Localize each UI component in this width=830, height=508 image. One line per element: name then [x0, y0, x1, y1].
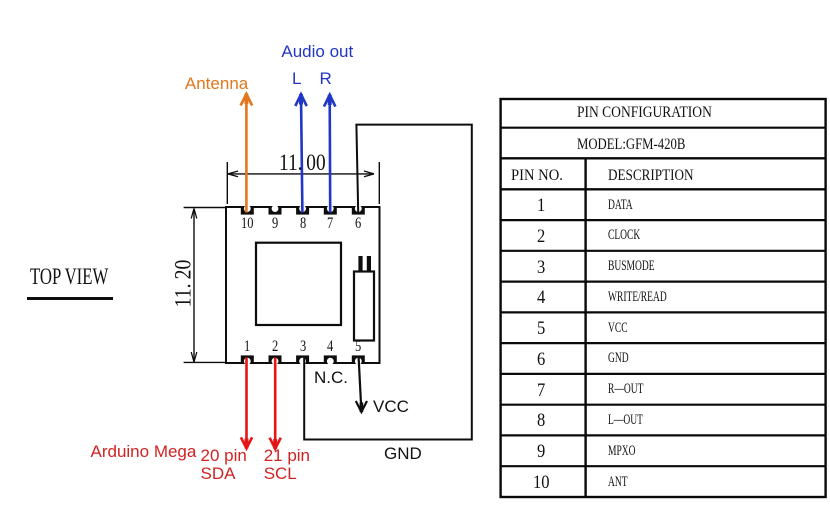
crystal lead 1 — [358, 256, 362, 272]
pin 3 pad — [296, 355, 309, 364]
dim text 11.20 — [171, 258, 194, 310]
row 3 description BUSMODE — [608, 259, 655, 274]
row 10 description ANT — [608, 475, 628, 490]
table header DESCRIPTION — [608, 168, 694, 184]
pin number 2 — [272, 339, 278, 355]
audio L arrow (blue, pin 8 up) — [295, 94, 306, 212]
GND wire (pin 3 to pin 6 loop) — [304, 125, 472, 440]
row 1 description DATA — [608, 198, 633, 213]
pin 5 pad — [352, 355, 365, 364]
label 20 pin SDA — [201, 447, 247, 483]
pin 4 pad — [324, 355, 337, 364]
table title PIN CONFIGURATION — [577, 105, 712, 121]
SCL arrow (red, pin 2 down) — [270, 358, 281, 449]
pin 9 pad — [269, 205, 282, 214]
row 4 description WRITE/READ — [608, 290, 667, 305]
pin number 5 — [355, 339, 361, 355]
pin number 9 — [272, 216, 278, 232]
label 21 pin SCL — [264, 447, 310, 483]
label L — [292, 70, 301, 87]
SDA arrow (red, pin 1 down) — [241, 358, 252, 449]
audio R arrow (blue, pin 7 up) — [324, 95, 335, 213]
label Arduino Mega — [91, 443, 197, 460]
row 1 pin number — [537, 196, 545, 215]
row 9 pin number — [537, 442, 545, 461]
row 2 description CLOCK — [608, 228, 640, 243]
table model MODEL:GFM-420B — [577, 137, 685, 153]
row 3 pin number — [537, 258, 545, 277]
label TOP VIEW — [30, 265, 108, 288]
dimension line 11.00 — [227, 162, 379, 204]
label VCC — [373, 398, 409, 415]
row 7 pin number — [537, 381, 545, 400]
row 7 description R-OUT — [608, 382, 643, 397]
pin 8 pad — [296, 205, 309, 214]
pin number 3 — [300, 339, 306, 355]
pin 2 pad — [269, 355, 282, 364]
pin 1 pad — [241, 355, 254, 364]
VCC arrow (black, pin 5 down) — [356, 357, 367, 412]
pin number 4 — [327, 339, 333, 355]
dimension line 11.20 — [184, 208, 227, 363]
label Antenna — [185, 75, 248, 92]
crystal body — [354, 272, 374, 341]
TOP VIEW underline — [27, 297, 113, 300]
table header PIN NO. — [511, 168, 563, 184]
pin number 8 — [300, 216, 306, 232]
pin number 7 — [327, 216, 333, 232]
module body GFM-420B — [226, 207, 380, 363]
row 6 description GND — [608, 351, 629, 366]
IC square — [256, 243, 341, 325]
pin number 10 — [241, 216, 253, 232]
row 6 pin number — [537, 350, 545, 369]
antenna arrow (orange, pin 10 up) — [241, 94, 253, 213]
row 5 description VCC — [608, 321, 628, 336]
row 8 description L-OUT — [608, 413, 643, 428]
crystal lead 2 — [367, 256, 371, 272]
row 10 pin number — [533, 473, 550, 492]
label GND — [384, 445, 422, 462]
label N.C. — [314, 369, 348, 386]
table frame — [501, 99, 826, 497]
pin 7 pad — [324, 205, 337, 214]
row 8 pin number — [537, 411, 545, 430]
pin 10 pad — [241, 205, 254, 214]
row 9 description MPXO — [608, 444, 636, 459]
pin number 1 — [244, 339, 250, 355]
dim text 11.00 — [279, 151, 326, 174]
pin number 6 — [355, 216, 361, 232]
pin 6 pad — [352, 205, 365, 214]
row 2 pin number — [537, 227, 545, 246]
label R — [320, 70, 332, 87]
row 5 pin number — [537, 319, 545, 338]
row 4 pin number — [537, 288, 545, 307]
label Audio out — [281, 43, 353, 60]
